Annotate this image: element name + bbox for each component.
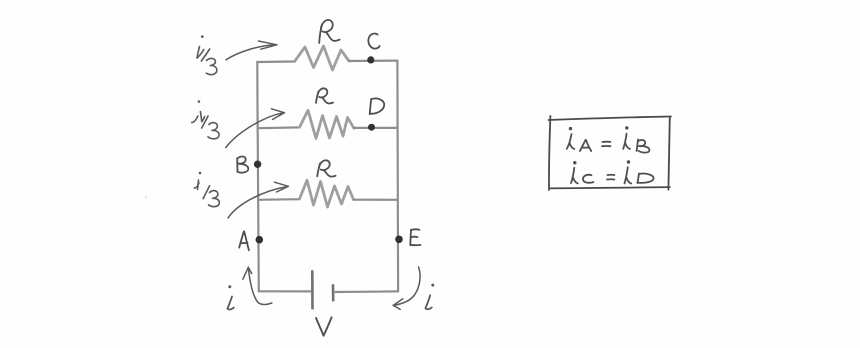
label iA (equation line 1) [567,127,591,151]
faint speck (scan artifact) [145,196,147,198]
battery V short plate [332,285,335,300]
resistor R (bottom branch) [300,180,354,207]
equals sign (line 1) [602,142,610,147]
node E dot [395,236,403,244]
label i (right battery current) [425,284,434,310]
node A dot [255,236,263,244]
label i (left battery current) [227,285,233,309]
wire branch 2 right segment [354,127,398,129]
label E (node E) [410,229,420,245]
wire bottom right segment (from battery) [336,290,399,293]
resistor R (top branch) [295,46,350,70]
equals sign (line 2) [607,175,614,180]
wire bottom left segment (to battery) [259,290,311,292]
label i/3 (bottom branch current) [194,172,219,207]
label iC (equation line 2) [571,161,593,183]
label R (middle resistor) [316,88,333,103]
label i/3 (top branch current) [197,35,217,74]
node B dot [254,161,261,168]
arrow (left battery current, pointing up) [243,267,272,304]
label B (node B) [237,156,248,172]
left rail wire (A-B, node A to top-left corner) [257,62,259,291]
arrow (bottom branch current) [228,182,288,218]
label i/3 (middle branch current) [192,100,219,139]
wire top branch right segment [349,59,397,62]
label R (bottom resistor) [317,160,335,176]
battery V long plate [311,271,314,308]
arrow (middle branch current) [226,109,285,148]
right rail wire (C/D/E side) [396,61,399,292]
box (equations frame) [549,116,672,190]
arrow (top branch current) [226,41,277,60]
label iB (equation line 1) [623,126,649,152]
label A (node A) [239,231,249,250]
wire branch 2 left segment [258,126,300,129]
node C dot [367,56,374,63]
label D (node D) [370,98,385,114]
wire branch 3 right segment [354,199,398,201]
node D dot [368,124,375,131]
label iD (equation line 2) [625,160,654,183]
wire top branch left segment [257,60,294,63]
resistor R (middle branch) [300,110,355,138]
label V (battery) [316,317,332,335]
label C (node C) [368,34,379,49]
label R (top resistor) [319,20,339,43]
wire branch 3 left segment [258,198,300,201]
arrow (right battery current, pointing lower-left) [393,267,420,309]
